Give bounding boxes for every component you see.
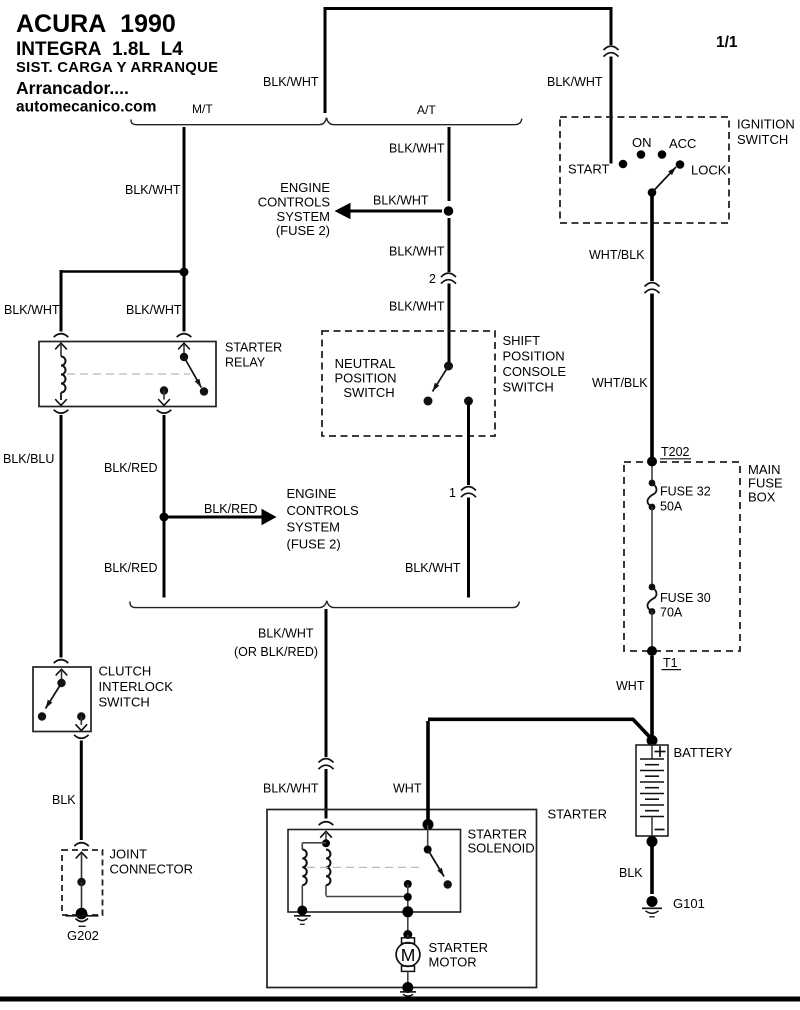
node WHT terminal at solenoid (423, 819, 434, 830)
node junction M/T split (180, 268, 189, 277)
wire A/T branch vertical upper (448, 127, 451, 201)
svg-text:STARTER: STARTER (429, 940, 488, 955)
connector inline on starter feed (319, 759, 334, 763)
svg-text:WHT/BLK: WHT/BLK (592, 376, 648, 390)
relay coil winding (61, 357, 66, 393)
svg-text:INTERLOCK: INTERLOCK (99, 679, 174, 694)
connector inline on ignition feed (604, 46, 619, 50)
svg-text:G101: G101 (673, 896, 705, 911)
svg-text:SYSTEM: SYSTEM (277, 209, 330, 224)
pin arrow joint connector input (76, 852, 88, 858)
node clutch switch pivot (57, 679, 65, 687)
node relay switch pivot (180, 353, 188, 361)
relay switch arm (184, 357, 201, 388)
wire M/T branch vertical (183, 127, 186, 272)
ground symbol solenoid coil (294, 915, 311, 917)
svg-text:BOX: BOX (748, 489, 776, 504)
svg-text:1/1: 1/1 (716, 34, 738, 51)
wire hold-in coil to motor node (325, 885, 327, 896)
wire relay coil lead-in (60, 344, 62, 357)
wire left vertical to starter relay coil (60, 270, 63, 332)
svg-text:FUSE 32: FUSE 32 (660, 485, 711, 499)
svg-text:2: 2 (429, 272, 436, 286)
wire relay output lead (163, 391, 165, 400)
svg-text:SIST. CARGA Y ARRANQUE: SIST. CARGA Y ARRANQUE (16, 60, 218, 76)
svg-text:ENGINE: ENGINE (287, 486, 337, 501)
connector cap clutch switch input (54, 660, 69, 663)
svg-text:SHIFT: SHIFT (503, 333, 541, 348)
svg-text:70A: 70A (660, 606, 683, 620)
starter outer box (267, 810, 537, 988)
wire battery ground BLK (650, 845, 654, 894)
node ignition switch pivot (648, 188, 657, 197)
svg-text:STARTER: STARTER (548, 807, 607, 822)
wire top-left vertical drop to M/T-A/T brace (324, 7, 327, 113)
wire relay coil lead-out (60, 393, 62, 401)
node relay switch output contact (160, 386, 168, 394)
wire top horizontal bus (324, 7, 613, 10)
brace splitting M/T and A/T branches (131, 118, 522, 125)
pin arrow relay coil input (55, 343, 67, 349)
neutral switch arm (433, 366, 449, 392)
svg-text:POSITION: POSITION (503, 349, 565, 364)
svg-text:BLK/RED: BLK/RED (204, 502, 258, 516)
pin arrow clutch input (56, 669, 68, 675)
wire pull-in coil to ground (301, 885, 303, 906)
wire A/T branch into neutral switch (448, 284, 451, 367)
wire ignition feed vertical lower (610, 57, 613, 164)
wire fuse box internal lower (651, 612, 653, 649)
node junction A/T tap to engine controls (444, 206, 454, 216)
svg-text:CLUTCH: CLUTCH (99, 664, 152, 679)
bottom page rule bar (0, 997, 800, 1002)
node ignition ON contact (637, 150, 646, 159)
node T1 (647, 646, 657, 656)
solenoid pull-in coil (302, 850, 306, 886)
svg-text:CONNECTOR: CONNECTOR (110, 862, 194, 877)
wire clutch lead-in (61, 670, 63, 679)
svg-text:(OR BLK/RED): (OR BLK/RED) (234, 645, 318, 659)
svg-text:1: 1 (449, 486, 456, 500)
svg-text:BLK/WHT: BLK/WHT (547, 75, 603, 89)
node neutral switch open contact (424, 397, 433, 406)
svg-text:BLK/WHT: BLK/WHT (125, 183, 181, 197)
svg-text:SWITCH: SWITCH (737, 132, 788, 147)
svg-text:WHT: WHT (616, 679, 645, 693)
connector inline 1 (461, 487, 476, 491)
wire relay switch lead-in (183, 344, 185, 353)
svg-text:WHT/BLK: WHT/BLK (589, 248, 645, 262)
pin arrow relay switch input (178, 343, 190, 349)
svg-text:BLK/WHT: BLK/WHT (258, 627, 314, 641)
node junction BLK/RED tap (160, 513, 169, 522)
svg-text:MOTOR: MOTOR (429, 955, 477, 970)
wire WHT battery feed into starter (426, 721, 430, 822)
battery internal top stub (651, 745, 653, 759)
svg-text:JOINT: JOINT (110, 847, 148, 862)
svg-text:(FUSE 2): (FUSE 2) (276, 223, 330, 238)
connector cap relay coil input (54, 334, 69, 337)
svg-text:BATTERY: BATTERY (674, 745, 733, 760)
node T202 (647, 457, 657, 467)
svg-text:SWITCH: SWITCH (343, 385, 394, 400)
wire neutral output to merge brace (467, 498, 470, 598)
svg-text:FUSE 30: FUSE 30 (660, 591, 711, 605)
svg-text:SWITCH: SWITCH (99, 695, 150, 710)
wire merged BLK/WHT down to starter (325, 609, 328, 757)
svg-text:(FUSE 2): (FUSE 2) (287, 536, 341, 551)
svg-text:CONSOLE: CONSOLE (503, 364, 567, 379)
solenoid hold-in coil (326, 850, 330, 886)
wire battery corner diagonal (633, 719, 653, 740)
wire BLK/RED relay output down (163, 415, 166, 598)
mechanical dashed link solenoid (307, 866, 424, 868)
starter motor M1 (407, 935, 409, 939)
node ignition ACC contact (658, 150, 667, 159)
wire joint connector internal upper (81, 853, 83, 882)
battery box (636, 745, 668, 836)
svg-text:A/T: A/T (417, 103, 436, 117)
pin arrow relay output (158, 399, 170, 405)
svg-text:G202: G202 (67, 928, 99, 943)
node relay switch closed contact (200, 387, 208, 395)
node neutral switch pivot (444, 362, 453, 371)
wire horizontal to left relay coil feed (60, 270, 185, 273)
connector cap joint connector input (74, 843, 89, 846)
node clutch switch output contact (77, 712, 85, 720)
pin arrow clutch output (76, 724, 88, 730)
wire starter feed lower (325, 769, 328, 819)
node solenoid coil junction (322, 839, 330, 847)
connector cup relay coil output (54, 410, 69, 413)
svg-text:T1: T1 (663, 656, 678, 670)
pin arrow relay coil output (55, 399, 67, 405)
battery plus sign (655, 751, 666, 753)
ignition switch dashed box (560, 117, 729, 223)
svg-text:SYSTEM: SYSTEM (287, 520, 340, 535)
wire ignition output WHT/BLK upper (650, 196, 654, 281)
svg-text:SOLENOID: SOLENOID (468, 841, 535, 856)
wire solenoid lead-in (325, 832, 327, 843)
wire fuse box internal middle (651, 507, 653, 587)
wire BLK/BLU relay to clutch interlock (60, 415, 63, 658)
ground symbol starter motor (400, 991, 416, 993)
wire A/T branch vertical middle (448, 218, 451, 272)
svg-text:STARTER: STARTER (468, 827, 527, 842)
svg-text:BLK/WHT: BLK/WHT (126, 303, 182, 317)
svg-text:ON: ON (632, 135, 652, 150)
ground G101 symbol (642, 907, 662, 909)
fuse 32 50A (649, 480, 656, 487)
wire BLK clutch to joint connector (80, 741, 83, 841)
connector cap solenoid input (319, 822, 334, 825)
ground node starter motor (402, 982, 413, 993)
wire solenoid coil bridge (302, 842, 326, 844)
ground G202 node (76, 908, 88, 920)
svg-text:STARTER: STARTER (225, 341, 282, 355)
clutch switch arm (46, 683, 62, 709)
connector inline 2 (441, 273, 456, 277)
svg-text:automecanico.com: automecanico.com (16, 99, 156, 116)
svg-text:RELAY: RELAY (225, 356, 266, 370)
node battery negative terminal (647, 836, 658, 847)
starter solenoid box (288, 830, 461, 913)
wire fuse box internal upper (651, 466, 653, 483)
node solenoid switch closed contact (444, 880, 452, 888)
svg-text:SWITCH: SWITCH (503, 380, 554, 395)
svg-text:Arrancador....: Arrancador.... (16, 78, 129, 98)
clutch interlock switch box (33, 667, 91, 732)
ignition switch arm (652, 167, 676, 193)
starter relay box (39, 342, 216, 407)
svg-text:WHT: WHT (393, 782, 422, 796)
wire joint connector internal lower (81, 882, 83, 914)
main fuse box dashed box (624, 462, 740, 651)
node battery positive terminal (647, 735, 658, 746)
svg-text:BLK/WHT: BLK/WHT (389, 142, 445, 156)
battery minus sign (655, 829, 665, 831)
ground G202 symbol (66, 915, 99, 917)
svg-text:BLK: BLK (52, 793, 76, 807)
node ignition START contact (619, 160, 628, 169)
node solenoid switch output contact (404, 880, 412, 888)
mechanical dashed link relay (67, 373, 190, 375)
wire motor to ground (407, 971, 409, 984)
node motor input (403, 930, 412, 939)
svg-text:START: START (568, 162, 609, 177)
svg-text:M: M (401, 945, 416, 965)
node neutral switch output contact (464, 397, 473, 406)
svg-text:ACC: ACC (669, 136, 696, 151)
svg-text:CONTROLS: CONTROLS (287, 503, 360, 518)
svg-text:BLK/WHT: BLK/WHT (263, 782, 319, 796)
svg-text:BLK/WHT: BLK/WHT (263, 75, 319, 89)
ground node solenoid coil (297, 906, 307, 916)
connector inline ignition output (645, 283, 660, 287)
connector cap relay switch input (177, 334, 192, 337)
svg-text:ACURA 1990: ACURA 1990 (16, 10, 176, 38)
node ignition LOCK contact (676, 160, 685, 169)
svg-text:BLK/WHT: BLK/WHT (389, 245, 445, 259)
svg-text:IGNITION: IGNITION (737, 117, 795, 132)
svg-text:BLK/WHT: BLK/WHT (4, 303, 60, 317)
svg-text:50A: 50A (660, 500, 683, 514)
wire T1 to battery WHT (650, 656, 654, 739)
svg-text:NEUTRAL: NEUTRAL (335, 356, 396, 371)
svg-text:BLK/BLU: BLK/BLU (3, 452, 54, 466)
solenoid switch arm (428, 850, 444, 877)
connector cup relay output (157, 410, 172, 413)
ground G101 node (647, 896, 658, 907)
wire arrow to engine controls (fuse 2) (164, 516, 263, 519)
node solenoid output at box edge (402, 906, 413, 917)
svg-text:ENGINE: ENGINE (280, 180, 330, 195)
pin arrow solenoid input (320, 832, 332, 838)
svg-text:BLK: BLK (619, 866, 643, 880)
connector cup clutch output (74, 735, 89, 738)
wire arrow to engine controls upper (350, 210, 442, 213)
joint connector dashed box (62, 850, 103, 915)
wire ignition output WHT/BLK lower (650, 294, 654, 462)
battery plates (640, 758, 664, 760)
svg-text:BLK/WHT: BLK/WHT (389, 300, 445, 314)
svg-text:BLK/WHT: BLK/WHT (373, 194, 429, 208)
svg-text:BLK/WHT: BLK/WHT (405, 561, 461, 575)
wire ignition feed vertical upper (610, 7, 613, 45)
wire solenoid output to motor (407, 884, 409, 935)
node joint connector mid (77, 878, 85, 886)
wire clutch output lead (80, 717, 82, 726)
wire solenoid switch lead (427, 825, 429, 850)
wire right vertical to starter relay switch (183, 272, 186, 332)
svg-text:BLK/RED: BLK/RED (104, 561, 158, 575)
neutral position switch dashed box (322, 331, 495, 436)
wire neutral switch output (467, 401, 470, 485)
svg-text:INTEGRA 1.8L L4: INTEGRA 1.8L L4 (16, 39, 183, 60)
brace merging M/T and A/T branches (130, 601, 519, 608)
node junction solenoid coil return (404, 893, 412, 901)
battery internal bottom stub (651, 817, 653, 837)
fuse 30 70A (649, 584, 656, 591)
svg-text:M/T: M/T (192, 102, 213, 116)
wire battery to starter horizontal (428, 717, 634, 721)
svg-text:CONTROLS: CONTROLS (258, 194, 331, 209)
svg-text:BLK/RED: BLK/RED (104, 461, 158, 475)
svg-text:POSITION: POSITION (334, 371, 396, 386)
svg-text:LOCK: LOCK (691, 163, 727, 178)
node solenoid switch pivot (424, 846, 432, 854)
node clutch switch open contact (38, 712, 46, 720)
svg-text:T202: T202 (661, 445, 690, 459)
